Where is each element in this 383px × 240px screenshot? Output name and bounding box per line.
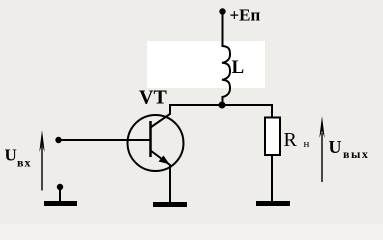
emitter lead xyxy=(151,151,171,203)
svg-text:вых: вых xyxy=(343,147,369,161)
wire input to base xyxy=(59,139,151,141)
collector lead xyxy=(151,104,171,128)
resistor Rн xyxy=(265,118,280,156)
svg-text:VT: VT xyxy=(139,87,167,109)
supply terminal dot xyxy=(219,8,225,14)
base bar xyxy=(149,121,152,157)
ground bar left xyxy=(44,201,77,206)
svg-text:U: U xyxy=(5,146,17,165)
wire inductor to junction xyxy=(222,96,224,106)
wire collector rail horizontal xyxy=(170,104,272,106)
wire supply to inductor xyxy=(222,13,224,47)
svg-text:L: L xyxy=(232,57,245,78)
transistor VT circle xyxy=(128,115,184,171)
svg-text:U: U xyxy=(329,137,342,157)
inductor L xyxy=(222,46,230,97)
input ground stub xyxy=(59,187,61,201)
arrow Uвх xyxy=(41,146,43,191)
white patch behind upper middle xyxy=(147,41,265,88)
input ground dot xyxy=(57,184,63,190)
arrow Uвых xyxy=(321,133,323,182)
emitter arrowhead xyxy=(159,156,170,165)
svg-text:н: н xyxy=(304,138,310,150)
svg-text:вх: вх xyxy=(17,156,31,170)
ground bar right xyxy=(256,201,290,206)
svg-text:R: R xyxy=(284,129,298,151)
svg-text:+Еп: +Еп xyxy=(230,6,261,25)
wire resistor to ground xyxy=(271,155,273,202)
node junction xyxy=(219,102,226,109)
ground bar center xyxy=(153,202,187,207)
wire down to resistor xyxy=(271,104,273,118)
input terminal dot xyxy=(55,137,61,143)
